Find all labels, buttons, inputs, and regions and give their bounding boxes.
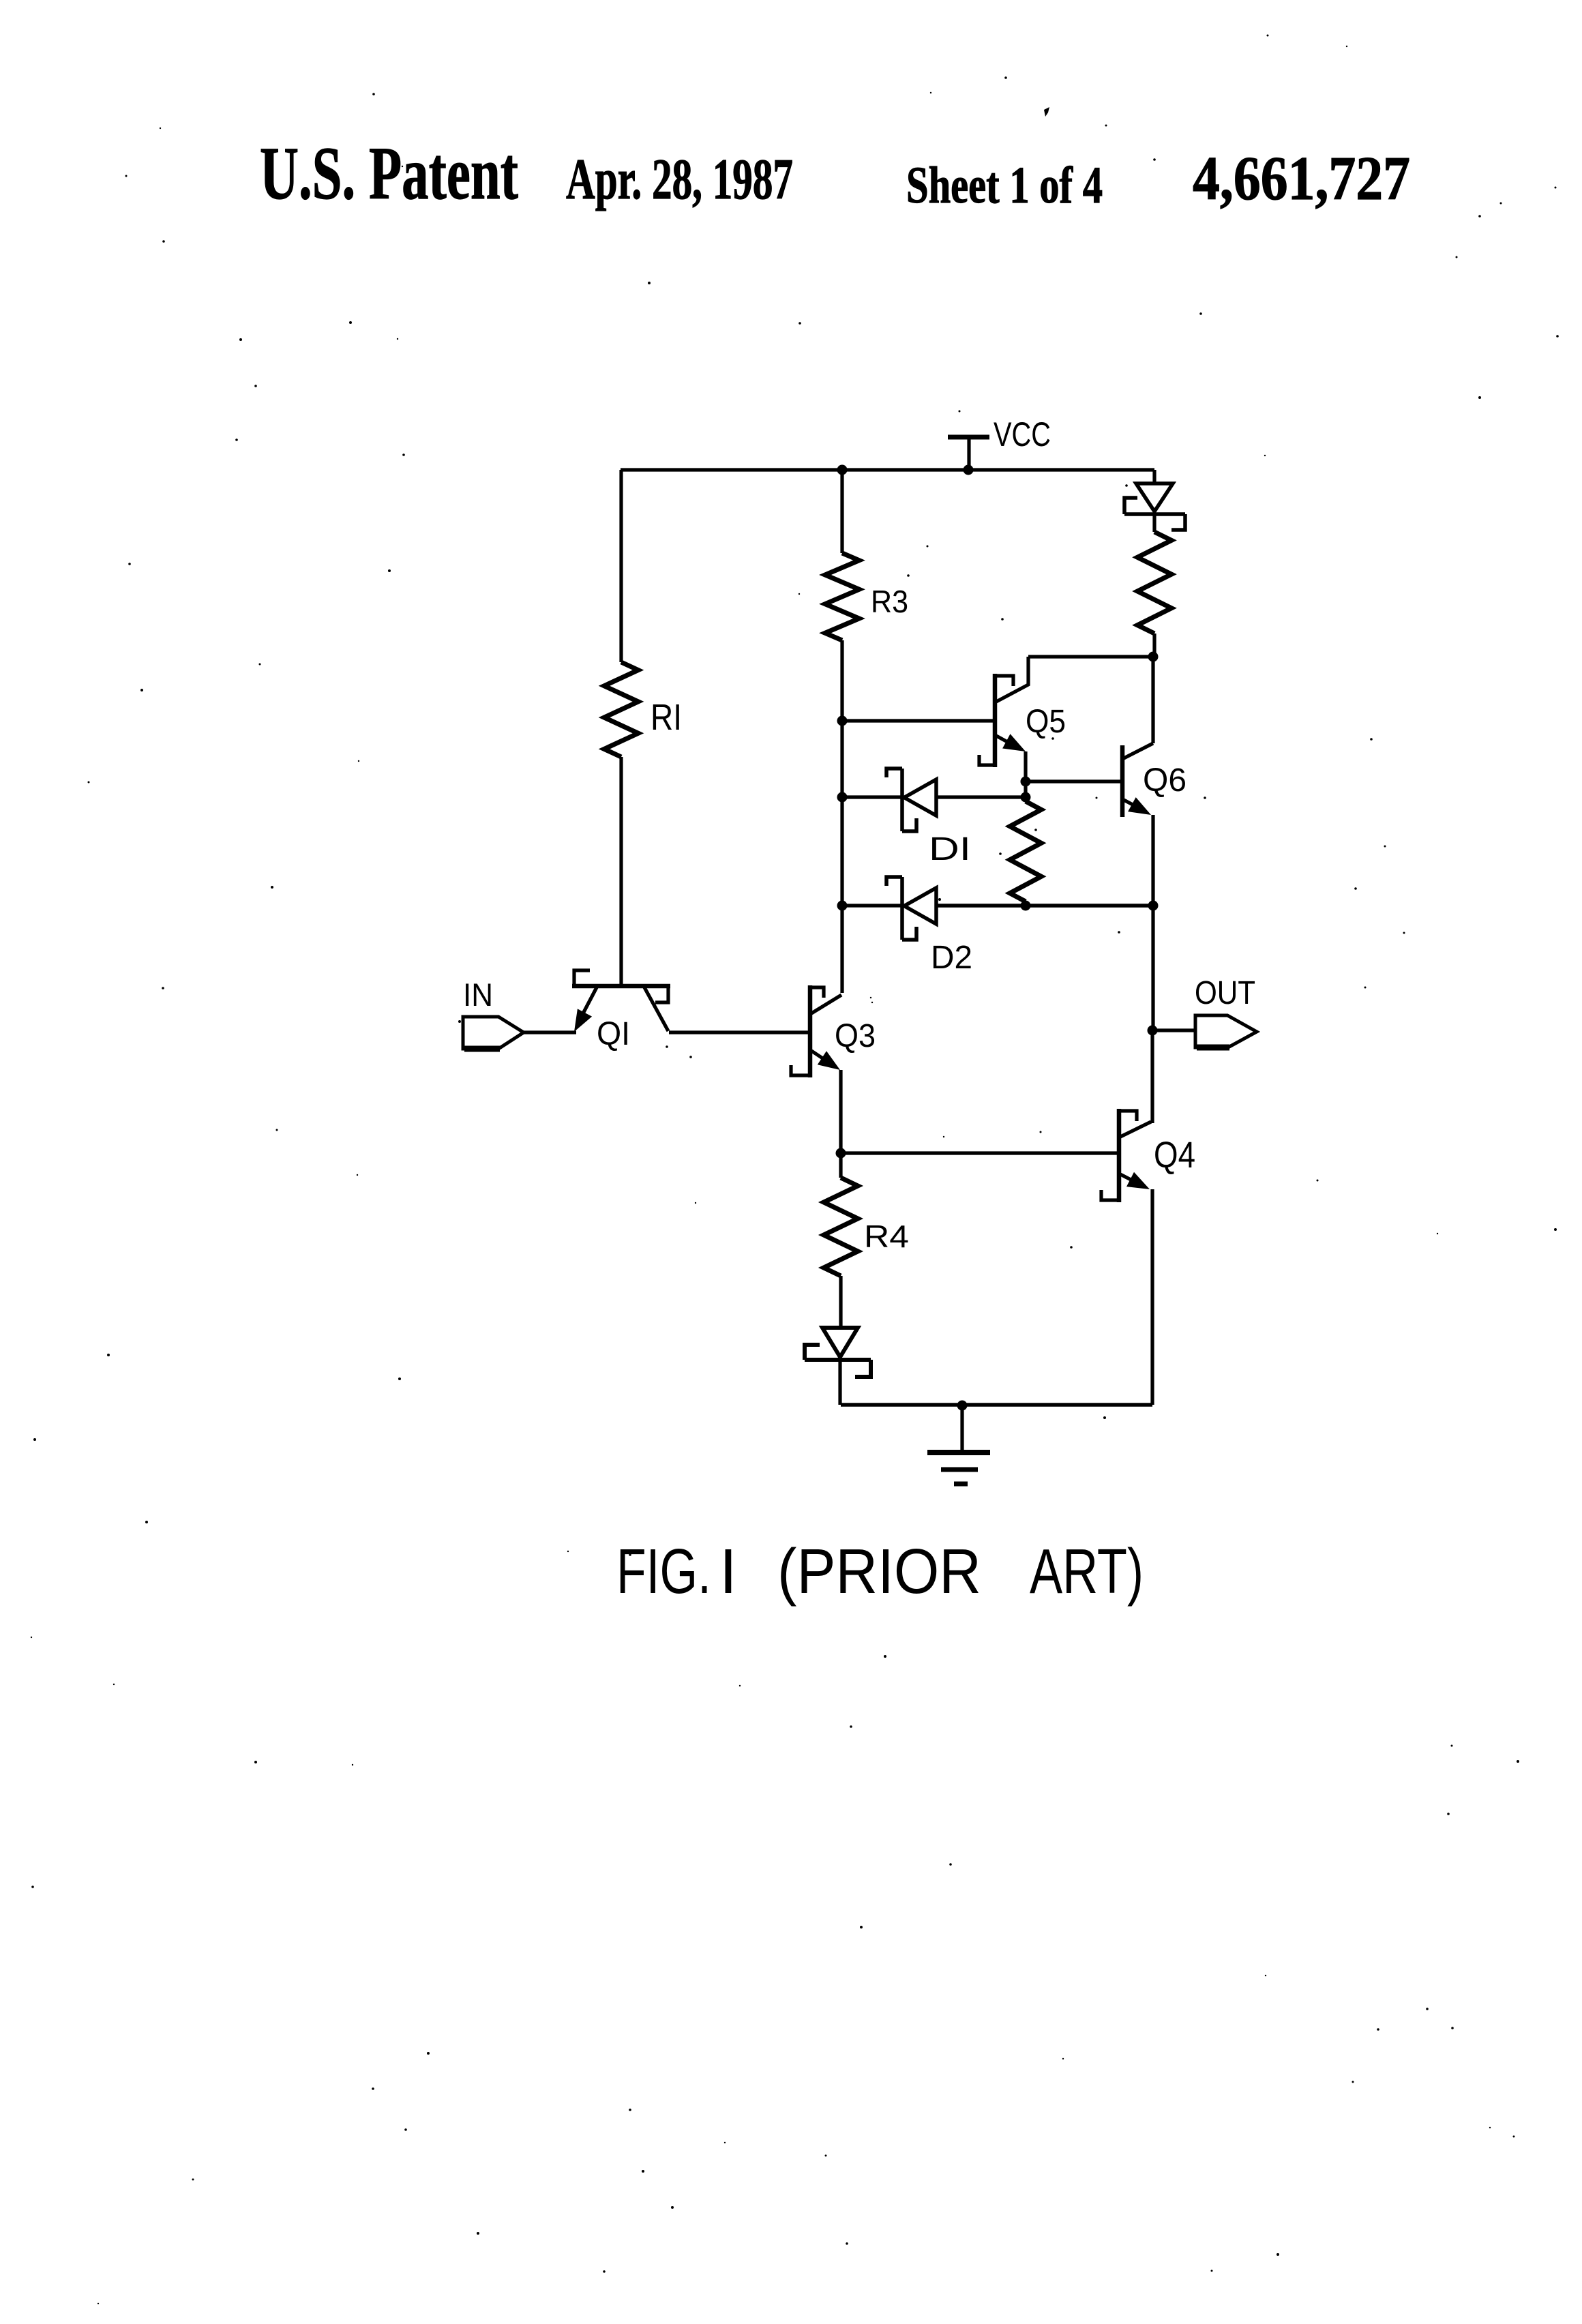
svg-text:U.S. Patent: U.S. Patent [260,132,518,215]
svg-text:Q4: Q4 [1154,1135,1195,1176]
junction: ground node [957,1401,968,1411]
junction: D2 line / Q6 emitter rail [1148,901,1159,911]
wire: stub to D1 node [1024,781,1027,801]
svg-text:Apr. 28, 1987: Apr. 28, 1987 [566,147,793,211]
junction: VCC node [964,465,974,475]
wire: OUT lead [1152,1028,1195,1032]
wire: top-right branch stub from rail [1152,470,1156,483]
svg-text:Q3: Q3 [835,1018,876,1054]
wire: R4 to diode [839,1276,842,1328]
resistor R4 [824,1178,858,1276]
wire: Q6 emitter rail to OUT node [1151,906,1154,1030]
resistor R1 [604,662,638,757]
ground [927,1405,990,1484]
svg-text:I: I [719,1536,737,1607]
svg-text:QI: QI [597,1016,630,1052]
resistor R5 (unlabeled, top right) [1137,532,1171,634]
junction: rail / D1 line [837,792,848,803]
wire: diode to resistor [1152,514,1156,532]
diode D3 (Schottky, top right) [1124,483,1185,530]
junction: top rail / R3 branch [837,465,848,475]
svg-text:Q5: Q5 [1026,704,1066,740]
diode D4 (Schottky, bottom) [805,1328,871,1377]
wire: R1 branch top [619,470,623,662]
resistor R3 [825,553,859,640]
junction: Q5 emitter / Q6 base node [1021,777,1031,787]
diode D1 [842,769,1026,831]
wire: bottom rail [841,1403,1152,1407]
junction: rail / Q5 base line [837,716,848,726]
transistor Q4 [1101,1109,1152,1405]
junction: D1 anode node [1021,792,1031,803]
svg-text:FIG.: FIG. [616,1536,711,1607]
wire: Q6 base line [1026,779,1122,783]
svg-text:D2: D2 [931,940,972,976]
diode D2 [842,877,1153,940]
wire: R1 to Q1 base [619,757,623,985]
junction: resistor bottom / D2 line [1021,901,1031,911]
svg-text:Q6: Q6 [1143,762,1186,799]
svg-text:Sheet 1 of 4: Sheet 1 of 4 [906,157,1103,214]
wire: diode to bottom rail [838,1360,841,1405]
svg-text:ART): ART) [1030,1536,1144,1607]
svg-text:IN: IN [463,977,493,1013]
wire: VCC top rail [621,468,1154,471]
junction: rail / D2 line [837,901,848,911]
svg-text:(PRIOR: (PRIOR [777,1536,981,1607]
power VCC symbol [948,437,989,470]
wire: R3 branch top [840,470,844,553]
svg-text:R4: R4 [864,1219,909,1254]
terminal OUT arrow [1195,1015,1257,1047]
svg-text:DI: DI [929,831,971,867]
wire: Q1 collector to Q3 base [669,1030,810,1034]
wire: node to R4 [839,1153,842,1178]
transistor Q3 [791,985,841,1153]
junction: Q5 collector / Q6 collector node [1148,652,1159,662]
wire: resistor bottom stub [1024,902,1027,906]
svg-text:RI: RI [651,697,682,738]
transistor Q6 [1122,657,1153,906]
svg-text:4,661,727: 4,661,727 [1193,144,1410,213]
wire: Q4 base line [841,1151,1119,1154]
junction: Q3 emitter / R4 / Q4 base node [836,1148,846,1159]
svg-text:OUT: OUT [1195,975,1255,1011]
wire: vertical rail R3 bottom to Q3 collector [840,640,844,993]
wire: OUT node to Q4 collector [1150,1030,1154,1123]
resistor R6 (unlabeled, middle) [1010,801,1041,902]
terminal IN arrow [463,1017,576,1049]
transistor Q1 [572,970,670,1032]
junction: OUT node [1148,1026,1158,1036]
wire: Q5 base line [842,719,995,722]
svg-text:VCC: VCC [994,415,1051,453]
svg-text:R3: R3 [871,584,908,619]
wire: resistor to node [1152,634,1156,657]
transistor Q5 [979,657,1153,781]
